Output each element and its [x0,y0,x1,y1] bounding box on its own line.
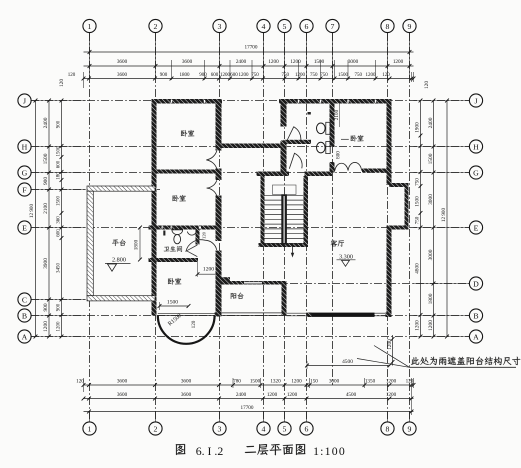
svg-text:120: 120 [191,320,197,328]
wall: E bath north wall [149,226,222,230]
left dimension letters line [48,101,50,337]
svg-text:3000: 3000 [428,194,434,205]
svg-text:600: 600 [230,73,238,78]
wall: living room south wall at B solid [312,313,375,317]
wall: terrace south wall at C [87,296,155,301]
vertical grid axis lines 1-9 [89,33,91,421]
svg-text:17700: 17700 [245,45,258,51]
svg-text:4: 4 [262,424,266,433]
dim 1800 bath3 rotated [139,228,141,260]
window: B wall grid5-grid6 double line [287,312,307,314]
svg-text:150: 150 [310,378,318,384]
stair up arrow [292,247,294,256]
svg-text:120: 120 [202,231,207,239]
svg-text:3000: 3000 [329,378,340,384]
wall: grid2 west wall of bedrooms [152,104,157,316]
wall: stair east wall grid6 [304,176,309,247]
door bedroom4 double-swing arcs [335,162,362,170]
svg-text:2.800: 2.800 [112,257,126,264]
svg-text:F: F [22,185,27,194]
svg-text:120: 120 [59,79,65,87]
svg-text:2: 2 [154,424,158,433]
svg-text:1500: 1500 [56,196,61,207]
wall: grid7 wall (door gap 800) [330,104,335,148]
wall: J north wall bedroom1 (grid2-3) [152,99,223,104]
svg-text:1200: 1200 [386,378,397,384]
left dimension total 12900 line [35,101,37,337]
svg-text:3600: 3600 [117,73,128,78]
wall: pier at grid6 on B wall [307,313,312,318]
label bedroom2 (2-3 G-E) [173,195,186,202]
svg-text:3000: 3000 [428,249,434,260]
toilet 2 lower bath [326,142,330,154]
wall stub right of bay chord [215,313,222,317]
svg-text:12 900: 12 900 [29,203,35,218]
label bathroom3 [164,246,182,252]
svg-text:750: 750 [320,73,328,78]
svg-text:2100: 2100 [334,109,340,120]
toilet 1 upper bath [326,122,330,134]
stair central stringer [281,195,287,245]
svg-text:900: 900 [43,303,49,311]
svg-text:120: 120 [382,73,390,78]
svg-text:J: J [23,96,26,105]
svg-text:2: 2 [154,22,158,31]
top dimension line row1 total 17700 [84,51,414,53]
wall: east wall lower (grid8) to B [387,230,392,317]
svg-text:4500: 4500 [342,359,353,365]
bottom dimension row3 total 17700 [84,411,414,413]
svg-text:900: 900 [160,73,168,78]
toilet bath3 [174,235,181,244]
svg-text:1200: 1200 [290,59,301,65]
svg-text:12 900: 12 900 [441,207,447,222]
svg-text:600: 600 [56,160,61,168]
svg-text:1200: 1200 [428,320,434,331]
door bedroom1 double-swing arcs [206,151,217,169]
door bath3 V-swing [187,245,198,251]
svg-text:8: 8 [386,424,390,433]
wall: G wall bedroom2 north [152,170,222,174]
svg-text:1500: 1500 [167,299,178,305]
top grid circles 1-9 [83,19,96,32]
svg-text:E: E [22,223,27,232]
svg-text:1500: 1500 [250,378,261,384]
svg-text:120: 120 [68,73,76,78]
svg-text:750: 750 [310,73,318,78]
svg-text:900: 900 [56,303,61,311]
label living room [331,240,344,247]
right inner detail dimension line [420,101,422,337]
svg-text:A: A [473,332,479,341]
wall: G wall bedroom4 south [332,169,335,173]
wall: terrace north wall at F [87,186,155,191]
svg-text:750: 750 [282,73,290,78]
svg-text:3600: 3600 [182,59,193,65]
note leader lines [374,346,410,368]
svg-text:3600: 3600 [117,392,128,398]
window: B wall east segment double line [375,312,386,314]
canopy dim 1200 rotated [392,335,394,366]
svg-text:1200: 1200 [366,73,377,78]
top extension lines from grid circles [89,33,91,79]
bottom dimension row1 detailed [84,384,414,386]
horizontal grid axis lines J..A [31,100,469,102]
svg-text:1200: 1200 [291,378,302,384]
svg-text:H: H [22,142,28,151]
svg-text:750: 750 [355,73,363,78]
svg-text:180: 180 [56,172,61,180]
svg-text:1500: 1500 [338,73,349,78]
svg-text:3600: 3600 [117,59,128,65]
svg-text:1500: 1500 [415,196,421,207]
svg-text:E: E [474,223,479,232]
wall: G wall stairs/bath south [257,172,290,177]
wall: grid8 below G + jog east [387,173,392,186]
svg-text:2400: 2400 [236,59,247,65]
wall: grid8 east wall bedroom4 [387,104,392,169]
svg-text:D: D [473,279,479,288]
wall: terrace west wall grid1 [87,191,93,296]
svg-text:2400: 2400 [43,117,49,128]
right letter stems [414,100,469,102]
wall: H divider in bath block [284,140,312,144]
svg-text:3: 3 [218,22,222,31]
svg-text:3000: 3000 [348,59,359,65]
svg-text:2100: 2100 [43,203,49,214]
right letter circles [469,94,482,107]
svg-text:1320: 1320 [270,378,281,384]
label balcony [231,293,244,299]
svg-text:1200: 1200 [386,392,397,398]
door bedroom3 / bath double arc [186,240,217,252]
svg-text:600: 600 [211,73,219,78]
basin bath3 [172,230,183,235]
svg-text:C: C [22,295,27,304]
svg-text:1200: 1200 [220,73,231,78]
window notch in D wall [244,281,262,284]
wall: grid5 wall D to B [282,285,287,316]
svg-text:1200: 1200 [295,73,306,78]
svg-text:1500: 1500 [56,146,61,157]
right letters dimension line [433,101,435,337]
svg-text:120: 120 [406,378,414,384]
svg-text:B: B [473,311,478,320]
dim 1500 in balcony strip [160,305,189,307]
svg-text:1:100: 1:100 [313,444,346,458]
top dimension line row3 detailed [84,78,414,80]
left inner detail dimension line [61,101,63,337]
wall: bath3 south wall [149,258,199,262]
wall: east wall upper (x406) [405,187,409,227]
svg-text:900: 900 [199,73,207,78]
svg-text:4: 4 [262,22,266,31]
svg-text:1800: 1800 [134,239,140,250]
svg-text:1500: 1500 [43,153,49,164]
label bedroom3 (2-3) [168,278,181,285]
svg-text:2400: 2400 [428,117,434,128]
svg-text:B: B [22,311,27,320]
fixture U bath3 [187,232,196,236]
svg-text:800: 800 [336,151,342,159]
svg-text:1900: 1900 [415,122,421,133]
wall: B-grid8 corner piece [386,313,392,318]
right total 12900 line [446,101,448,337]
svg-text:3900: 3900 [43,258,49,269]
svg-text:6: 6 [305,424,309,433]
svg-text:8: 8 [386,22,390,31]
bottom extension lines [89,412,91,422]
svg-text:1: 1 [88,424,92,433]
svg-text:6: 6 [305,22,309,31]
balcony south rail at B (double thin line) [217,312,284,314]
chord of semicircle bay (double thin line) [158,312,215,314]
svg-text:3600: 3600 [181,392,192,398]
svg-text:1200: 1200 [267,392,278,398]
svg-text:1200: 1200 [287,392,298,398]
svg-text:2400: 2400 [236,392,247,398]
svg-text:1800: 1800 [180,73,191,78]
svg-text:3: 3 [218,424,222,433]
svg-text:4500: 4500 [346,392,357,398]
label terrace [112,239,126,246]
wall: stair west wall [261,176,265,247]
svg-text:G: G [22,168,28,177]
svg-text:A: A [22,332,28,341]
svg-text:1: 1 [88,22,92,31]
wall stub east of grid3 above D [222,277,231,281]
svg-text:1350: 1350 [365,378,376,384]
window notches in J wall bedroom1 [171,100,172,103]
wall: stair south wall [259,243,309,247]
door bath upper leaf and arc [287,127,301,140]
svg-text:1200: 1200 [203,266,214,272]
svg-text:750: 750 [251,73,259,78]
note text: structural dims of canopy over balcony [411,357,520,365]
tap mark upper bath [308,112,311,115]
svg-text:4800: 4800 [415,263,421,274]
svg-text:G: G [473,168,479,177]
svg-text:1200: 1200 [415,320,421,331]
door bedroom2 double-swing arcs [207,180,217,196]
svg-text:900: 900 [43,177,49,185]
door bath lower leaf and arc [289,153,302,169]
svg-text:3600: 3600 [117,378,128,384]
wall: D wall balcony north [216,281,287,285]
wall: jog to grid9 at y185 [389,183,409,187]
svg-text:900: 900 [56,120,61,128]
left letter circles [18,94,31,107]
svg-text:1800: 1800 [428,293,434,304]
bottom grid circles (no 7) [83,422,96,435]
svg-text:750: 750 [415,178,421,186]
svg-text:600: 600 [56,229,61,237]
wall: E jog east wall [387,226,409,230]
label bedroom1 (2-3 J-G) [181,130,194,137]
bottom dimension row2 [84,398,414,400]
svg-text:3600: 3600 [181,378,192,384]
left letter stems [31,100,86,102]
svg-text:1200: 1200 [268,59,279,65]
svg-text:1200: 1200 [387,339,393,350]
svg-text:17700: 17700 [241,405,254,411]
svg-text:J: J [474,96,477,105]
svg-text:3450: 3450 [56,263,61,274]
stair treads [265,194,304,196]
tap mark bath3 [163,231,165,236]
svg-text:780: 780 [233,378,241,384]
svg-text:1200: 1200 [43,321,49,332]
svg-text:7: 7 [331,22,335,31]
wall: bath3 east wall above door [196,230,200,245]
svg-text:H: H [473,142,479,151]
svg-text:360: 360 [56,216,61,224]
svg-text:1200: 1200 [239,73,250,78]
svg-text:120: 120 [424,81,430,89]
svg-text:1500: 1500 [314,59,325,65]
semicircular bay window R1500 arc [158,315,215,343]
svg-text:5: 5 [283,424,287,433]
wall: grid3 wall segments with door openings [216,99,222,151]
svg-text:1200: 1200 [393,59,404,65]
svg-text:1200: 1200 [56,321,61,332]
svg-text:1500: 1500 [428,153,434,164]
svg-text:120: 120 [76,378,84,384]
svg-text:9: 9 [408,22,412,31]
wall: J north wall bath+bedroom4 (grid5-8) [279,99,392,104]
svg-text:750: 750 [415,216,421,224]
wall: H hall north wall grid3-grid5 [222,144,284,149]
label bedroom4 (7-8) with leader [341,138,349,140]
top dimension line row2 [84,65,414,67]
stair landing outline [273,185,297,195]
svg-text:5: 5 [283,22,287,31]
svg-text:6. I .2: 6. I .2 [196,444,224,458]
svg-text:9: 9 [408,424,412,433]
canopy dim 4500 [307,365,390,367]
caption: figure 6.1.2 second floor plan 1:100 [176,444,186,455]
wall: grid5 bath west wall (door gaps) [281,104,287,127]
